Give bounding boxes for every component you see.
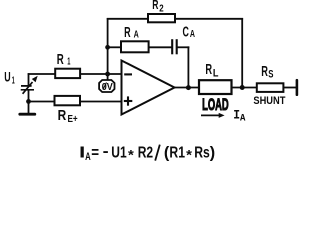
arrow IA load current [201,114,220,116]
virtual ground 0V badge [99,80,114,93]
svg-text:S: S [268,69,273,81]
wire CA branch vertical down to output node [187,46,189,87]
svg-text:SHUNT: SHUNT [253,95,285,107]
svg-text:U: U [4,69,10,85]
svg-text:*: * [186,146,192,162]
svg-text:0V: 0V [102,81,113,93]
svg-text:*: * [128,146,134,162]
svg-text:R: R [57,52,64,68]
wire RL to RS [232,87,257,89]
resistor R1 [55,69,80,78]
wire top rail left segment to R2 [107,18,149,20]
svg-text:=: = [91,145,99,162]
wire from source U1 node to RE+ [29,101,55,103]
ground [20,113,35,116]
node op-amp output junction [186,85,191,90]
capacitor CA plates [172,39,177,54]
wire CA to corner [177,46,190,48]
resistor RL load [199,80,232,94]
svg-text:A: A [190,28,195,40]
node inverting input junction [105,72,110,77]
source U1 vertical stems [28,73,30,113]
wire right vertical from top rail down to RL-RS node [241,18,243,88]
svg-text:R: R [58,108,67,124]
source U1 battery bars [21,86,34,90]
op-amp inverting input minus sign [124,73,132,75]
svg-text:-: - [103,143,109,160]
svg-text:R: R [124,25,131,41]
svg-text:R2: R2 [138,145,153,162]
svg-text:1: 1 [67,56,70,68]
wire from source U1 to R1 [28,73,55,75]
svg-text:2: 2 [159,3,164,14]
node RA branch junction [105,45,110,50]
wire feedback vertical from inverting node to top rail [107,18,109,75]
wire RS to output terminal [284,87,297,89]
formula IA = -U1*R2/(R1*Rs) [79,143,215,163]
svg-text:C: C [183,24,190,40]
svg-text:R: R [152,0,159,12]
svg-text:A: A [134,29,139,41]
wire stub from inverting node down to 0V badge [107,74,109,80]
op-amp U triangle [122,61,175,115]
source U1 adjustment arrow [23,82,33,94]
resistor R2 [148,14,175,22]
svg-text:A: A [85,151,91,163]
svg-text:Rs: Rs [194,145,210,162]
wire top rail right segment from R2 to right corner [175,18,243,20]
wire R1 to op-amp inverting input [80,73,122,75]
resistor RS shunt [257,83,284,92]
wire RA to CA [149,46,172,48]
wire RA branch from feedback vertical to RA [108,46,121,48]
svg-text:1: 1 [12,74,15,86]
resistor RE+ [55,96,81,105]
output terminal bar [296,80,299,95]
wire op-amp output to RL [174,87,199,89]
svg-text:A: A [240,113,246,124]
node RL-RS junction [240,85,245,90]
svg-text:LOAD: LOAD [202,95,229,114]
svg-text:L: L [213,67,219,79]
svg-text:E+: E+ [68,113,78,125]
resistor RA [121,41,149,52]
svg-text:R1: R1 [169,145,185,162]
node source U1 junction [26,99,31,104]
svg-text:R: R [205,62,212,78]
svg-text:U1: U1 [111,145,127,162]
svg-text:): ) [210,145,215,162]
op-amp non-inverting input plus sign [124,96,133,105]
wire RE+ to op-amp non-inverting input [80,101,121,103]
